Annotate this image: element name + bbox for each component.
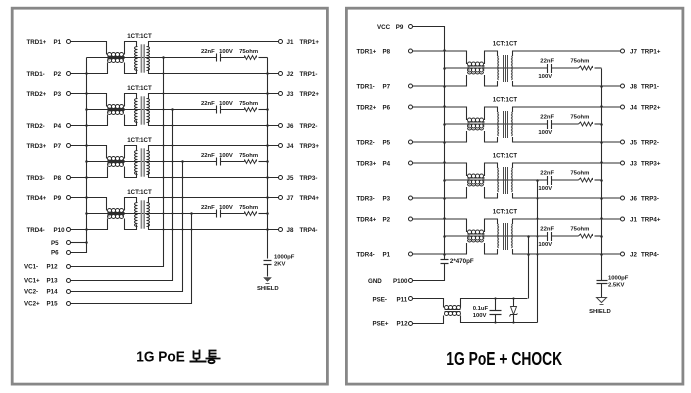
svg-text:1000pF: 1000pF bbox=[608, 275, 629, 281]
node bus B: VCC bus bbox=[413, 27, 445, 260]
svg-text:TRP4-: TRP4- bbox=[641, 251, 659, 258]
svg-text:TDR1-: TDR1- bbox=[357, 83, 375, 90]
svg-text:P4: P4 bbox=[383, 160, 391, 167]
svg-text:P15: P15 bbox=[47, 301, 59, 308]
shield bus left panel bbox=[267, 58, 269, 259]
svg-text:TRD3-: TRD3- bbox=[27, 175, 45, 182]
svg-text:TRD2-: TRD2- bbox=[27, 123, 45, 130]
svg-text:J7: J7 bbox=[287, 195, 294, 202]
svg-text:VCC: VCC bbox=[377, 24, 391, 31]
svg-text:J6: J6 bbox=[287, 123, 294, 130]
svg-text:TRP2-: TRP2- bbox=[641, 139, 659, 146]
svg-text:TDR2-: TDR2- bbox=[357, 139, 375, 146]
svg-text:P6: P6 bbox=[383, 104, 391, 111]
svg-text:2KV: 2KV bbox=[274, 262, 286, 268]
transformer T1 with common-mode choke, channel 1 left panel bbox=[67, 33, 283, 76]
svg-text:TRD4+: TRD4+ bbox=[27, 195, 47, 202]
choke L1 PSE filter bbox=[413, 299, 444, 308]
svg-text:1G PoE: 1G PoE bbox=[136, 350, 185, 366]
svg-text:P9: P9 bbox=[54, 195, 62, 202]
svg-text:P100: P100 bbox=[393, 278, 408, 285]
svg-text:P12: P12 bbox=[47, 263, 59, 270]
svg-text:TRD1+: TRD1+ bbox=[27, 39, 47, 46]
svg-text:P10: P10 bbox=[54, 227, 66, 234]
svg-text:TRP2+: TRP2+ bbox=[641, 104, 661, 111]
svg-text:PSE-: PSE- bbox=[373, 296, 387, 303]
svg-text:TDR4-: TDR4- bbox=[357, 251, 375, 258]
svg-text:TRD3+: TRD3+ bbox=[27, 143, 47, 150]
svg-text:J3: J3 bbox=[630, 160, 637, 167]
svg-text:TRP3-: TRP3- bbox=[300, 175, 318, 182]
svg-text:P5: P5 bbox=[51, 240, 59, 247]
svg-text:P3: P3 bbox=[383, 195, 391, 202]
svg-text:GND: GND bbox=[368, 278, 382, 285]
svg-text:J2: J2 bbox=[630, 251, 637, 258]
svg-text:J5: J5 bbox=[630, 139, 637, 146]
svg-text:J6: J6 bbox=[630, 195, 637, 202]
svg-text:P5: P5 bbox=[383, 139, 391, 146]
svg-text:P1: P1 bbox=[54, 39, 62, 46]
svg-text:J1: J1 bbox=[287, 39, 294, 46]
svg-text:TDR4+: TDR4+ bbox=[357, 216, 377, 223]
pin P15 (VC2+) wire to channel center tap bbox=[71, 214, 192, 304]
svg-text:P3: P3 bbox=[54, 91, 62, 98]
pin P5 wire bbox=[71, 242, 87, 244]
transformer T4 with common-mode choke, channel 4 left panel bbox=[67, 189, 283, 232]
ground SHIELD symbol right bbox=[597, 298, 607, 303]
wire CT stubs to bus A bbox=[87, 109, 108, 111]
svg-text:1000pF: 1000pF bbox=[274, 255, 295, 261]
svg-text:TRP1+: TRP1+ bbox=[300, 39, 320, 46]
svg-text:TDR3+: TDR3+ bbox=[357, 160, 377, 167]
shield bus right panel bbox=[601, 69, 603, 281]
svg-text:P8: P8 bbox=[54, 175, 62, 182]
svg-text:P8: P8 bbox=[383, 48, 391, 55]
svg-text:J8: J8 bbox=[630, 83, 637, 90]
svg-text:TRP1-: TRP1- bbox=[300, 71, 318, 78]
svg-text:VC2+: VC2+ bbox=[24, 301, 40, 308]
svg-text:TRP2-: TRP2- bbox=[300, 123, 318, 130]
pin P12 PSE+ bbox=[409, 322, 413, 326]
right panel frame bbox=[346, 8, 683, 384]
svg-text:J3: J3 bbox=[287, 91, 294, 98]
svg-text:1G PoE + CHOCK: 1G PoE + CHOCK bbox=[446, 349, 562, 369]
svg-text:P4: P4 bbox=[54, 123, 62, 130]
svg-text:PSE+: PSE+ bbox=[373, 320, 389, 327]
svg-text:TRD4-: TRD4- bbox=[27, 227, 45, 234]
svg-text:TRP4+: TRP4+ bbox=[300, 195, 320, 202]
transformer T7 with common-mode choke, channel 3 right panel bbox=[409, 153, 625, 200]
capacitor 1000pF 2.5KV bbox=[597, 280, 608, 282]
svg-text:P2: P2 bbox=[54, 71, 62, 78]
svg-text:2.5KV: 2.5KV bbox=[608, 283, 624, 289]
svg-text:P2: P2 bbox=[383, 216, 391, 223]
capacitor 0.1uF 100V bbox=[495, 299, 497, 311]
svg-text:SHIELD: SHIELD bbox=[589, 309, 611, 315]
svg-text:P1: P1 bbox=[383, 251, 391, 258]
wire V_b: ch3 center tap to PSE bottom rail bbox=[537, 181, 539, 323]
svg-text:TDR3-: TDR3- bbox=[357, 195, 375, 202]
left panel frame bbox=[12, 8, 327, 384]
diode D1 TVS bbox=[513, 299, 515, 307]
svg-text:2*470pF: 2*470pF bbox=[450, 258, 474, 265]
svg-text:P6: P6 bbox=[51, 249, 59, 256]
node bus A: center-tap bus left panel bbox=[71, 58, 87, 253]
capacitor 2*470pF bbox=[441, 259, 449, 261]
svg-text:P12: P12 bbox=[397, 320, 409, 327]
pin P100 GND bbox=[409, 279, 413, 283]
pin P12 (VC1-) wire to channel center tap bbox=[71, 58, 164, 267]
pin P6 bbox=[67, 251, 71, 255]
svg-text:P11: P11 bbox=[397, 296, 408, 303]
transformer T2 with common-mode choke, channel 2 left panel bbox=[67, 85, 283, 128]
svg-text:VC1-: VC1- bbox=[24, 263, 38, 270]
transformer T8 with common-mode choke, channel 4 right panel bbox=[409, 209, 625, 256]
junction dots right bbox=[443, 49, 446, 52]
svg-text:TRP2+: TRP2+ bbox=[300, 91, 320, 98]
choke L1 windings bbox=[445, 306, 461, 308]
svg-text:P7: P7 bbox=[54, 143, 62, 150]
ground SHIELD symbol left bbox=[264, 278, 272, 282]
svg-text:100V: 100V bbox=[473, 313, 487, 319]
svg-text:SHIELD: SHIELD bbox=[257, 286, 279, 292]
svg-text:TRP4+: TRP4+ bbox=[641, 216, 661, 223]
svg-text:P9: P9 bbox=[396, 24, 404, 31]
pin P9 VCC bbox=[409, 25, 413, 29]
pin P5 bbox=[67, 241, 71, 245]
svg-text:TRP1+: TRP1+ bbox=[641, 48, 661, 55]
svg-text:TDR1+: TDR1+ bbox=[357, 48, 377, 55]
svg-text:TRP4-: TRP4- bbox=[300, 227, 318, 234]
svg-text:J8: J8 bbox=[287, 227, 294, 234]
transformer T3 with common-mode choke, channel 3 left panel bbox=[67, 137, 283, 180]
svg-text:TRP1-: TRP1- bbox=[641, 83, 659, 90]
svg-text:J4: J4 bbox=[287, 143, 294, 150]
svg-text:VC1+: VC1+ bbox=[24, 278, 40, 285]
svg-text:P13: P13 bbox=[47, 278, 59, 285]
wire V_a: ch4 center tap to PSE top rail bbox=[528, 237, 530, 299]
junction dots left bbox=[85, 72, 88, 75]
svg-text:TDR2+: TDR2+ bbox=[357, 104, 377, 111]
wire PSE bottom rail bbox=[461, 316, 538, 323]
svg-text:J2: J2 bbox=[287, 71, 294, 78]
svg-text:J1: J1 bbox=[630, 216, 637, 223]
svg-text:J5: J5 bbox=[287, 175, 294, 182]
svg-text:P14: P14 bbox=[47, 289, 59, 296]
svg-text:0.1uF: 0.1uF bbox=[473, 306, 489, 312]
transformer T5 with common-mode choke, channel 1 right panel bbox=[409, 41, 625, 88]
pin P14 (VC2-) wire to channel center tap bbox=[71, 162, 183, 292]
capacitor 1000pF 2KV bbox=[264, 260, 272, 262]
svg-text:P7: P7 bbox=[383, 83, 391, 90]
svg-text:TRD1-: TRD1- bbox=[27, 71, 45, 78]
svg-text:J4: J4 bbox=[630, 104, 637, 111]
pin P11 PSE- bbox=[409, 297, 413, 301]
svg-text:TRP3+: TRP3+ bbox=[300, 143, 320, 150]
transformer T6 with common-mode choke, channel 2 right panel bbox=[409, 97, 625, 144]
svg-text:TRD2+: TRD2+ bbox=[27, 91, 47, 98]
wire PSE top rail bbox=[461, 299, 528, 308]
svg-text:TRP3+: TRP3+ bbox=[641, 160, 661, 167]
pin P13 (VC1+) wire to channel center tap bbox=[71, 110, 173, 281]
svg-text:VC2-: VC2- bbox=[24, 289, 38, 296]
svg-text:TRP3-: TRP3- bbox=[641, 195, 659, 202]
svg-text:J7: J7 bbox=[630, 48, 637, 55]
